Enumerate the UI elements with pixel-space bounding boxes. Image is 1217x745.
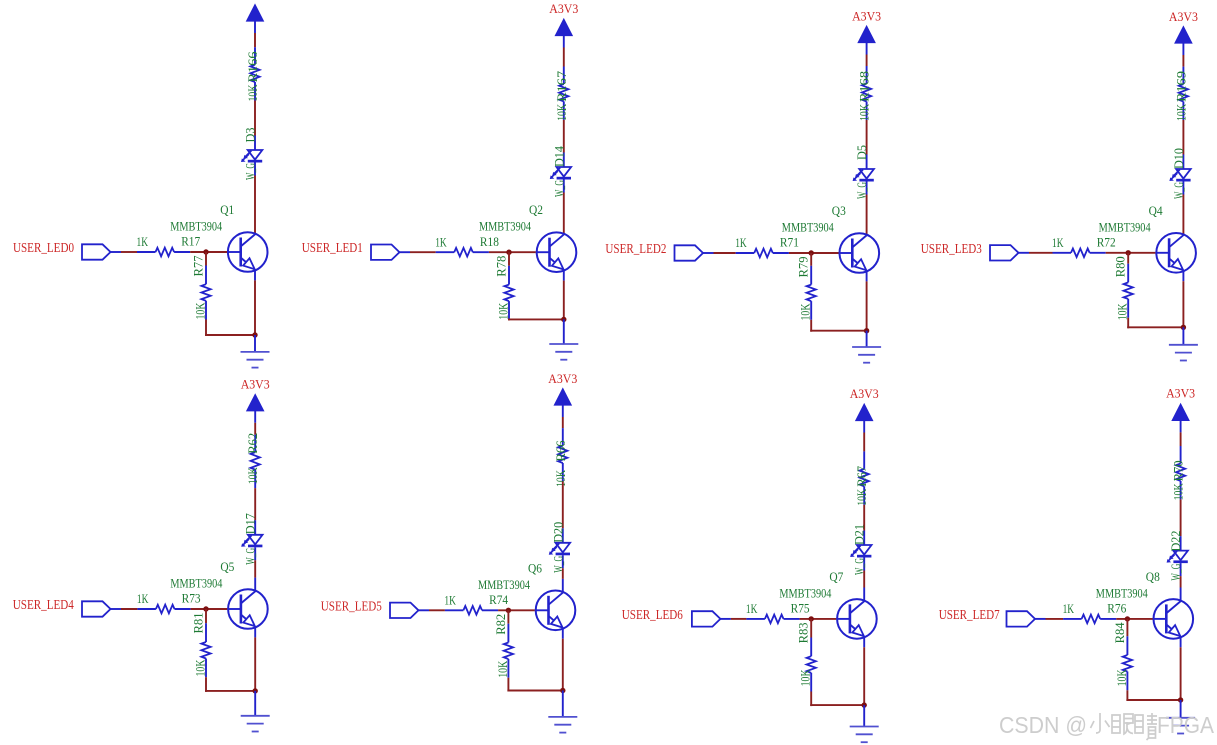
- wire Q1 emitter to ground node: [254, 270, 256, 335]
- svg-text:CSDN @: CSDN @: [999, 712, 1087, 738]
- wire R76 to Q8 base: [1116, 618, 1166, 620]
- input port USER_LED0: [82, 244, 111, 259]
- svg-text:MMBT3904: MMBT3904: [478, 577, 530, 592]
- resistor R17 1K (base series): [137, 248, 190, 257]
- svg-text:R71: R71: [780, 235, 799, 250]
- svg-text:Q2: Q2: [529, 202, 543, 217]
- svg-text:R72: R72: [1097, 235, 1116, 250]
- wire Q2 emitter to ground node: [563, 271, 565, 320]
- wire R80 to emitter net: [1127, 318, 1183, 329]
- svg-text:Q6: Q6: [528, 560, 542, 575]
- ground symbol (circuit 2): [549, 344, 578, 360]
- svg-text:USER_LED3: USER_LED3: [921, 242, 982, 257]
- wire D22 to Q8 collector: [1180, 576, 1182, 600]
- svg-text:10K: 10K: [496, 302, 511, 319]
- wire USER_LED7 port to R76: [1035, 618, 1063, 620]
- resistor R73 1K (base series): [137, 605, 190, 614]
- svg-text:1K: 1K: [735, 235, 747, 250]
- svg-text:USER_LED1: USER_LED1: [302, 241, 363, 256]
- svg-text:10K: 10K: [798, 669, 813, 686]
- wire Q8 emitter to ground node: [1180, 637, 1182, 700]
- wire R18 to Q2 base: [489, 251, 550, 253]
- svg-text:R82: R82: [493, 614, 508, 635]
- svg-text:A3V3: A3V3: [850, 387, 879, 401]
- svg-text:R83: R83: [796, 622, 811, 643]
- svg-text:D21: D21: [852, 524, 867, 545]
- svg-text:10K: 10K: [1173, 104, 1188, 121]
- svg-text:R75: R75: [791, 601, 810, 616]
- LED D20 W_G: [549, 528, 570, 568]
- svg-text:R168: R168: [857, 71, 872, 102]
- wire D10 to Q4 collector: [1182, 195, 1184, 235]
- LED D10 W_G: [1169, 155, 1190, 195]
- wire R84 to emitter net: [1126, 690, 1180, 701]
- wire D5 to Q3 collector: [866, 195, 868, 235]
- svg-text:MMBT3904: MMBT3904: [170, 576, 222, 591]
- input port USER_LED5: [390, 603, 419, 618]
- wire R81 to emitter net: [205, 677, 255, 692]
- svg-text:Q3: Q3: [832, 203, 846, 218]
- LED D22 W_G: [1167, 536, 1188, 576]
- wire junction to R84: [1126, 619, 1128, 636]
- wire junction to R78: [508, 252, 510, 266]
- wire D17 to Q5 collector: [254, 560, 256, 590]
- transistor Q7 MMBT3904 (NPN): [837, 599, 877, 639]
- resistor R84 10K (pull-down): [1123, 636, 1132, 690]
- wire A3V3 to R166: [254, 33, 256, 47]
- wire USER_LED1 port to R18: [400, 251, 436, 253]
- resistor R78 10K (pull-down): [504, 266, 513, 320]
- wire R167 to D14: [563, 120, 565, 153]
- ground symbol (circuit 1): [241, 352, 270, 368]
- svg-text:D10: D10: [1171, 148, 1186, 169]
- junction node emitter/ground: [864, 328, 869, 333]
- svg-text:Q4: Q4: [1149, 203, 1163, 218]
- svg-text:1K: 1K: [137, 234, 149, 249]
- wire junction to R83: [810, 619, 812, 638]
- input port USER_LED7: [1007, 611, 1036, 626]
- wire A3V3 to R167: [563, 48, 565, 67]
- wire junction to R77: [205, 252, 207, 266]
- input port USER_LED2: [675, 245, 704, 260]
- transistor Q2 MMBT3904 (NPN): [537, 232, 577, 272]
- svg-text:1K: 1K: [1052, 235, 1064, 250]
- svg-text:USER_LED4: USER_LED4: [13, 598, 74, 613]
- LED D14 W_G: [550, 153, 571, 193]
- wire R73 to Q5 base: [191, 608, 241, 610]
- svg-text:1K: 1K: [137, 591, 149, 606]
- svg-text:D3: D3: [243, 128, 258, 143]
- wire USER_LED3 port to R72: [1019, 252, 1053, 254]
- wire A3V3 to R67: [863, 433, 865, 452]
- wire R17 to Q1 base: [190, 251, 241, 253]
- wire A3V3 to R66: [562, 417, 564, 428]
- svg-text:MMBT3904: MMBT3904: [170, 219, 222, 234]
- resistor R62 10K (pull-up): [251, 435, 260, 488]
- resistor R167 10K (pull-up): [559, 67, 568, 120]
- junction node base/R81: [203, 606, 208, 611]
- junction node base/R79: [809, 250, 814, 255]
- svg-text:D22: D22: [1168, 531, 1183, 552]
- wire junction to R81: [205, 609, 207, 623]
- resistor R168 10K (pull-up): [862, 66, 871, 120]
- wire R62 to D17: [254, 488, 256, 520]
- wire USER_LED6 port to R75: [720, 618, 746, 620]
- svg-text:A3V3: A3V3: [241, 378, 270, 392]
- svg-text:1K: 1K: [435, 234, 447, 249]
- svg-text:R67: R67: [854, 465, 869, 486]
- svg-text:A3V3: A3V3: [1169, 10, 1198, 24]
- wire junction to R80: [1127, 253, 1129, 264]
- junction node emitter/ground: [561, 317, 566, 322]
- wire to ground (circuit 3): [866, 331, 868, 347]
- svg-text:R18: R18: [480, 234, 499, 249]
- svg-text:R84: R84: [1112, 622, 1127, 643]
- svg-text:D17: D17: [243, 513, 258, 534]
- svg-text:R70: R70: [1171, 460, 1186, 481]
- ground symbol (circuit 4): [1169, 345, 1198, 361]
- input port USER_LED6: [692, 611, 721, 626]
- LED D21 W_G: [850, 531, 871, 571]
- wire R67 to D21: [863, 505, 865, 531]
- svg-text:R166: R166: [245, 51, 260, 83]
- svg-text:R76: R76: [1107, 601, 1126, 616]
- svg-text:USER_LED6: USER_LED6: [622, 608, 683, 623]
- junction node emitter/ground: [252, 332, 257, 337]
- resistor R81 10K (pull-down): [201, 623, 210, 677]
- junction node emitter/ground: [1181, 325, 1186, 330]
- transistor Q8 MMBT3904 (NPN): [1154, 599, 1194, 639]
- wire junction to R82: [507, 610, 509, 623]
- svg-text:D5: D5: [854, 145, 869, 160]
- wire R71 to Q3 base: [789, 252, 852, 254]
- junction node emitter/ground: [253, 688, 258, 693]
- svg-text:1K: 1K: [1063, 601, 1075, 616]
- svg-text:A3V3: A3V3: [852, 9, 881, 23]
- LED D17 W_G: [241, 520, 262, 560]
- transistor Q1 MMBT3904 (NPN): [228, 232, 268, 272]
- junction node base/R84: [1125, 616, 1130, 621]
- watermark CSDN @xiaoyanjing FPGA: [999, 712, 1215, 740]
- input port USER_LED1: [371, 245, 400, 260]
- svg-text:R78: R78: [494, 256, 509, 277]
- svg-text:10K: 10K: [1171, 483, 1186, 500]
- wire to ground (circuit 4): [1182, 327, 1184, 345]
- svg-text:R79: R79: [796, 257, 811, 278]
- wire D3 to Q1 collector: [254, 176, 256, 234]
- wire A3V3 to R62: [254, 423, 256, 435]
- svg-text:10K: 10K: [854, 488, 869, 505]
- input port USER_LED3: [990, 245, 1019, 260]
- resistor R70 10K (pull-up): [1176, 446, 1185, 499]
- power symbol A3V3 arrow (circuit 5): [247, 394, 264, 423]
- wire Q7 emitter to ground node: [863, 637, 865, 705]
- resistor R75 1K (base series): [746, 615, 799, 624]
- resistor R82 10K (pull-down): [504, 624, 513, 678]
- wire to ground (circuit 2): [563, 319, 565, 344]
- svg-text:MMBT3904: MMBT3904: [1099, 219, 1151, 234]
- power symbol A3V3 arrow (circuit 6): [554, 389, 571, 418]
- svg-text:A3V3: A3V3: [1166, 386, 1195, 400]
- transistor Q3 MMBT3904 (NPN): [840, 233, 880, 273]
- watermark hanzi xiao: [1091, 713, 1110, 733]
- LED D3 W_G: [241, 136, 262, 176]
- resistor R67 10K (pull-up): [860, 451, 869, 504]
- resistor R71 1K (base series): [736, 249, 789, 258]
- svg-text:USER_LED0: USER_LED0: [13, 241, 74, 256]
- ground symbol (circuit 8): [1166, 718, 1195, 734]
- wire A3V3 to R168: [866, 55, 868, 67]
- svg-text:10K: 10K: [495, 660, 510, 677]
- svg-text:R81: R81: [191, 613, 206, 634]
- wire USER_LED4 port to R73: [111, 608, 138, 610]
- wire R77 to emitter net: [205, 320, 255, 337]
- svg-text:10K: 10K: [857, 104, 872, 121]
- wire A3V3 to R70: [1180, 432, 1182, 446]
- wire R75 to Q7 base: [800, 618, 850, 620]
- svg-text:Q1: Q1: [220, 202, 234, 217]
- wire to ground (circuit 5): [254, 691, 256, 716]
- wire to ground (circuit 8): [1180, 700, 1182, 718]
- transistor Q4 MMBT3904 (NPN): [1156, 233, 1196, 273]
- svg-text:10K: 10K: [193, 659, 208, 676]
- svg-text:USER_LED5: USER_LED5: [321, 599, 382, 614]
- wire USER_LED5 port to R74: [419, 609, 445, 611]
- svg-text:10K: 10K: [1114, 669, 1129, 686]
- power symbol A3V3 arrow (circuit 4): [1175, 27, 1192, 56]
- svg-text:D20: D20: [550, 522, 565, 543]
- wire to ground (circuit 1): [254, 335, 256, 352]
- resistor R18 1K (base series): [436, 248, 489, 257]
- ground symbol (circuit 6): [548, 717, 577, 733]
- svg-text:R62: R62: [245, 433, 260, 454]
- wire A3V3 to R169: [1182, 55, 1184, 67]
- wire USER_LED0 port to R17: [111, 251, 138, 253]
- wire Q6 emitter to ground node: [562, 629, 564, 691]
- junction node emitter/ground: [560, 688, 565, 693]
- svg-text:Q7: Q7: [829, 569, 843, 584]
- junction node emitter/ground: [862, 702, 867, 707]
- wire R72 to Q4 base: [1106, 252, 1169, 254]
- junction node base/R80: [1126, 250, 1131, 255]
- svg-text:D14: D14: [551, 146, 566, 167]
- wire R66 to D20: [562, 482, 564, 529]
- resistor R74 1K (base series): [445, 606, 498, 615]
- svg-text:A3V3: A3V3: [548, 372, 577, 386]
- wire junction to R79: [810, 253, 812, 266]
- svg-text:10K: 10K: [1115, 303, 1130, 320]
- svg-text:10K: 10K: [245, 467, 260, 484]
- svg-text:10K: 10K: [193, 302, 208, 319]
- power symbol A3V3 arrow (circuit 7): [856, 404, 873, 433]
- svg-text:A3V3: A3V3: [549, 2, 578, 16]
- svg-text:1K: 1K: [444, 593, 456, 608]
- svg-text:1K: 1K: [746, 601, 758, 616]
- svg-text:MMBT3904: MMBT3904: [479, 219, 531, 234]
- svg-text:R74: R74: [489, 592, 508, 607]
- wire R168 to D5: [866, 120, 868, 155]
- svg-text:10K: 10K: [245, 84, 260, 101]
- wire R82 to emitter net: [507, 678, 562, 692]
- wire R70 to D22: [1180, 499, 1182, 536]
- wire Q5 emitter to ground node: [254, 627, 256, 691]
- resistor R166 10K (pull-up): [250, 47, 259, 100]
- svg-text:R73: R73: [182, 591, 201, 606]
- junction node base/R77: [203, 249, 208, 254]
- svg-text:R167: R167: [554, 70, 569, 102]
- junction node base/R83: [809, 616, 814, 621]
- transistor Q5 MMBT3904 (NPN): [228, 589, 268, 629]
- svg-text:R77: R77: [191, 255, 206, 276]
- wire R79 to emitter net: [810, 320, 866, 332]
- svg-text:R169: R169: [1173, 71, 1188, 102]
- wire to ground (circuit 7): [863, 705, 865, 726]
- wire D20 to Q6 collector: [562, 568, 564, 592]
- resistor R79 10K (pull-down): [807, 266, 816, 320]
- svg-text:10K: 10K: [554, 103, 569, 120]
- svg-text:USER_LED2: USER_LED2: [605, 242, 666, 257]
- wire R74 to Q6 base: [498, 609, 548, 611]
- svg-text:USER_LED7: USER_LED7: [939, 608, 1000, 623]
- resistor R169 10K (pull-up): [1179, 67, 1188, 120]
- ground symbol (circuit 5): [241, 716, 270, 732]
- wire Q4 emitter to ground node: [1182, 271, 1184, 327]
- LED D5 W_G: [853, 155, 874, 195]
- svg-text:10K: 10K: [798, 303, 813, 320]
- junction node emitter/ground: [1178, 697, 1183, 702]
- power symbol A3V3 arrow (circuit 2): [555, 19, 572, 48]
- resistor R66 10K (pull-up): [558, 428, 567, 481]
- wire Q3 emitter to ground node: [866, 271, 868, 330]
- wire to ground (circuit 6): [562, 691, 564, 717]
- resistor R77 10K (pull-down): [201, 266, 210, 320]
- svg-text:MMBT3904: MMBT3904: [1096, 585, 1148, 600]
- transistor Q6 MMBT3904 (NPN): [536, 591, 576, 631]
- ground symbol (circuit 3): [852, 347, 881, 363]
- junction node base/R82: [506, 608, 511, 613]
- wire R169 to D10: [1182, 120, 1184, 155]
- junction node base/R78: [506, 250, 511, 255]
- power symbol A3V3 arrow (circuit 8): [1172, 404, 1189, 433]
- svg-text:Q5: Q5: [220, 559, 234, 574]
- watermark hanzi jing: [1135, 713, 1157, 740]
- svg-text:MMBT3904: MMBT3904: [782, 220, 834, 235]
- svg-text:R66: R66: [553, 440, 568, 461]
- resistor R76 1K (base series): [1063, 615, 1116, 624]
- svg-text:MMBT3904: MMBT3904: [779, 585, 831, 600]
- svg-text:FPGA: FPGA: [1157, 712, 1215, 738]
- wire D21 to Q7 collector: [863, 571, 865, 601]
- resistor R80 10K (pull-down): [1124, 264, 1133, 318]
- wire R78 to emitter net: [508, 319, 564, 320]
- resistor R83 10K (pull-down): [807, 638, 816, 692]
- svg-text:Q8: Q8: [1146, 569, 1160, 584]
- ground symbol (circuit 7): [850, 727, 879, 743]
- wire R83 to emitter net: [810, 692, 864, 707]
- power symbol A3V3 arrow (circuit 3): [858, 26, 875, 55]
- resistor R72 1K (base series): [1053, 249, 1106, 258]
- power symbol A3V3 arrow (circuit 1): [247, 5, 264, 34]
- wire R166 to D3: [254, 101, 256, 136]
- input port USER_LED4: [82, 601, 111, 616]
- watermark hanzi yan: [1112, 714, 1133, 734]
- wire D14 to Q2 collector: [563, 193, 565, 234]
- svg-text:R80: R80: [1113, 256, 1128, 277]
- wire USER_LED2 port to R71: [703, 252, 736, 254]
- svg-text:R17: R17: [181, 234, 200, 249]
- svg-text:10K: 10K: [553, 470, 568, 487]
